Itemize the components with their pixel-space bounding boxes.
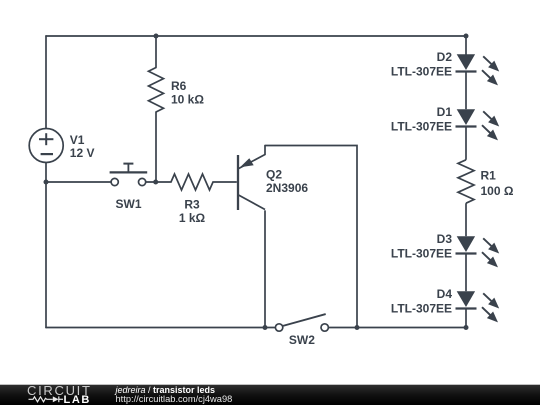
svg-text:2N3906: 2N3906 [266,181,308,195]
svg-text:10 kΩ: 10 kΩ [171,92,204,106]
wire LED chain top lead [465,36,467,54]
svg-text:D2: D2 [437,50,453,64]
resistor R1 [458,160,474,236]
svg-text:R3: R3 [184,198,200,212]
svg-text:D3: D3 [437,232,453,246]
junction node (top right corner) [464,34,469,39]
resistor R6 [149,68,164,113]
LED D1 [456,109,500,160]
transistor Q2 emitter arrowhead [240,158,254,167]
LED D2 [456,54,500,109]
wire left rail lower [45,162,47,327]
wire emitter loop (top and right side) [265,146,357,328]
junction node (V1 / middle wire) [44,180,49,185]
svg-text:SW1: SW1 [115,197,141,211]
wire R6 bottom lead [155,112,157,182]
svg-text:LTL-307EE: LTL-307EE [391,64,452,78]
transistor Q2 (PNP 2N3906) [238,146,265,211]
wire bottom rail left segment [46,327,276,329]
svg-text:Q2: Q2 [266,168,282,182]
switch SW1 pushbutton [110,164,148,186]
svg-text:1 kΩ: 1 kΩ [179,211,206,225]
LED D4 [456,291,500,327]
wire collector drop [264,211,266,328]
junction node (bottom rail / LED chain) [464,325,469,330]
wire bottom rail right segment [328,327,466,329]
wire top rail [46,35,466,37]
svg-text:D4: D4 [437,287,453,301]
junction node (SW1 / R6 / R3) [153,180,158,185]
svg-text:LAB: LAB [64,394,91,405]
svg-text:R6: R6 [171,79,187,93]
resistor R3 [156,174,237,190]
svg-text:100 Ω: 100 Ω [481,184,514,198]
svg-text:D1: D1 [437,105,453,119]
junction node (right loop / bottom rail) [355,325,360,330]
svg-text:LTL-307EE: LTL-307EE [391,301,452,315]
voltage source V1 [29,129,63,163]
wire R6 top lead [155,36,157,68]
svg-text:LTL-307EE: LTL-307EE [391,119,452,133]
LED D3 [456,236,500,291]
CircuitLab logo resistor-diode glyph [29,396,64,402]
svg-text:V1: V1 [70,133,85,147]
switch SW2 [275,314,328,331]
svg-text:LTL-307EE: LTL-307EE [391,246,452,260]
svg-text:http://circuitlab.com/cj4wa98: http://circuitlab.com/cj4wa98 [116,394,233,404]
wire SW1 to node [146,181,156,183]
svg-text:12 V: 12 V [70,146,95,160]
wire left rail upper [45,36,47,129]
wire middle (V1 to SW1) [46,181,111,183]
junction node (collector / bottom rail) [263,325,268,330]
junction node (top / R6) [154,34,159,39]
svg-text:R1: R1 [481,168,497,182]
svg-text:SW2: SW2 [289,333,315,347]
